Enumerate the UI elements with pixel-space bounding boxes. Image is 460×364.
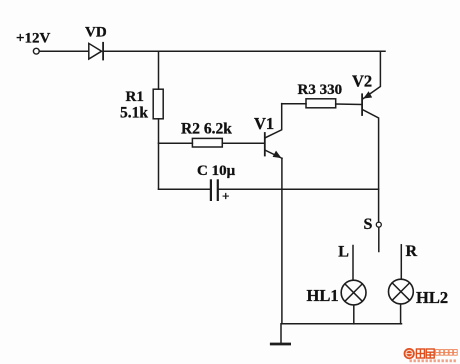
svg-text:+12V: +12V xyxy=(16,31,51,47)
svg-text:V1: V1 xyxy=(254,114,274,133)
svg-text:VD: VD xyxy=(85,25,107,41)
svg-text:S: S xyxy=(364,216,373,233)
svg-text:HL2: HL2 xyxy=(416,288,448,307)
svg-text:R1: R1 xyxy=(126,89,144,105)
svg-text:R: R xyxy=(406,243,418,260)
svg-text:HL1: HL1 xyxy=(307,286,339,305)
svg-text:V2: V2 xyxy=(352,72,372,91)
svg-text:C 10μ: C 10μ xyxy=(197,163,236,179)
svg-text:+: + xyxy=(222,188,229,203)
svg-text:5.1k: 5.1k xyxy=(120,104,148,121)
svg-text:R3 330: R3 330 xyxy=(298,82,343,98)
svg-text:L: L xyxy=(338,243,349,260)
svg-text:R2 6.2k: R2 6.2k xyxy=(181,121,232,138)
